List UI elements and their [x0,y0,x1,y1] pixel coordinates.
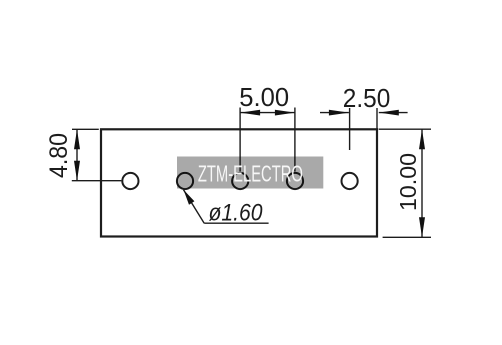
svg-text:ZTM-ELECTRO: ZTM-ELECTRO [198,160,303,186]
svg-text:ø1.60: ø1.60 [209,200,264,227]
svg-text:4.80: 4.80 [45,133,73,178]
svg-text:10.00: 10.00 [395,153,421,211]
svg-text:5.00: 5.00 [239,84,289,112]
svg-text:2.50: 2.50 [343,85,391,113]
